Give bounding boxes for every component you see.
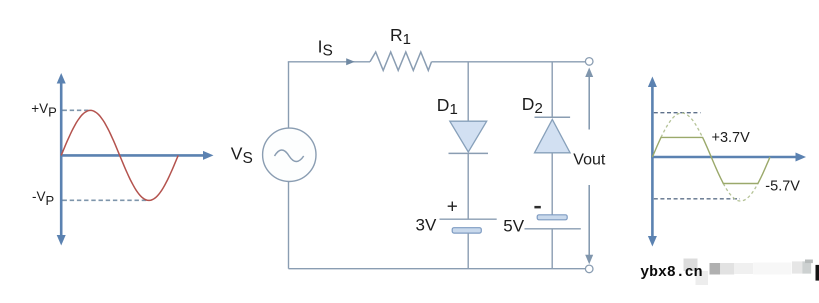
wire bottom-left vertical: [288, 181, 290, 268]
svg-text:Vout: Vout: [573, 151, 606, 168]
battery B1 to bottom wire: [467, 233, 469, 269]
wire top horizontal (right of resistor): [432, 61, 586, 63]
right graph vertical axis: [648, 77, 657, 247]
wire top-left vertical: [288, 62, 290, 129]
Vout top arrow: [585, 68, 593, 130]
Vout bottom arrow: [585, 185, 593, 264]
D1 branch top wire: [467, 62, 469, 121]
left graph horizontal axis: [60, 151, 214, 160]
D1 to battery wire: [467, 153, 469, 219]
watermark blur block 1: [684, 259, 698, 272]
battery B2 short thick plate: [537, 215, 567, 220]
watermark blur block 8: [802, 261, 811, 273]
sine symbol inside source: [275, 150, 304, 162]
dashed +Vp level line: [63, 109, 89, 111]
battery B2 to bottom wire: [551, 229, 553, 269]
watermark dark bar: [816, 265, 819, 281]
diode D2: [535, 119, 571, 152]
input sine wave: [61, 110, 178, 200]
svg-text:ybx8.cn: ybx8.cn: [640, 265, 702, 281]
watermark blur block 7: [792, 261, 811, 273]
watermark blur block 9: [805, 260, 813, 264]
svg-text:+3.7V: +3.7V: [712, 130, 751, 146]
terminal node bottom: [585, 265, 593, 273]
watermark blur block 3: [710, 263, 721, 275]
dashed trough level line bottom: [654, 198, 740, 200]
watermark blur block 4: [720, 263, 734, 275]
battery B2 minus label: [534, 206, 540, 209]
Is current arrowhead: [346, 58, 355, 65]
svg-text:3V: 3V: [416, 215, 437, 234]
terminal node top: [585, 58, 593, 66]
battery B2 long plate: [525, 228, 581, 230]
dashed -Vp level line: [63, 199, 148, 201]
D2 to battery wire: [551, 153, 553, 215]
watermark blur block 6: [753, 263, 791, 275]
svg-text:5V: 5V: [503, 216, 524, 235]
D2 branch top wire: [551, 62, 553, 117]
dashed clipped sine arc top: [661, 113, 703, 137]
source circle U VS: [263, 128, 316, 181]
D1 cathode bar: [449, 152, 489, 154]
wire top horizontal (left of resistor): [288, 61, 370, 63]
clipped output wave: [652, 137, 770, 183]
bottom wire: [289, 268, 586, 270]
right graph horizontal axis: [651, 153, 806, 162]
left graph vertical axis: [57, 73, 66, 246]
svg-text:+: +: [447, 197, 458, 218]
diode D1: [450, 121, 487, 152]
resistor R1: [370, 52, 432, 70]
battery B1 short thick plate: [452, 228, 481, 233]
battery B1 long plate: [440, 218, 497, 220]
dashed clipped sine arc bottom: [723, 184, 758, 202]
watermark blur block 2: [696, 271, 709, 285]
svg-text:-5.7V: -5.7V: [765, 178, 800, 194]
D2 cathode bar: [535, 116, 571, 118]
watermark blur block 5: [734, 263, 753, 274]
dashed peak level line top: [654, 112, 701, 114]
